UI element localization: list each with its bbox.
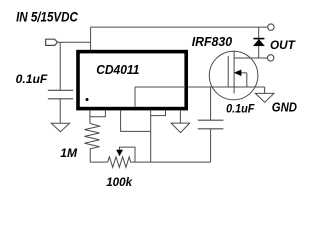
terminal OUT+: [268, 24, 274, 30]
pin wire (pins 5-6 tie): [151, 110, 166, 116]
wire diode branch vertical: [258, 27, 260, 58]
svg-text:0.1uF: 0.1uF: [226, 101, 255, 115]
ground (source): [255, 93, 274, 102]
svg-text:GND: GND: [272, 100, 297, 115]
ground (IC pin 7): [171, 123, 190, 133]
svg-text:100k: 100k: [106, 175, 133, 189]
wire bottom rail: [90, 161, 107, 163]
capacitor C2 0.1uF (right): [210, 87, 212, 120]
transistor Q1 channel line: [233, 51, 235, 94]
potentiometer R2 100k: [108, 157, 131, 167]
wire VDD vertical: [90, 27, 92, 50]
transistor Q1 gate plate: [227, 56, 229, 87]
pin wire (pin 7 to ground): [179, 110, 181, 123]
ground (input cap): [51, 123, 69, 131]
capacitor C1 0.1uF (left): [59, 42, 61, 90]
pin wire (pin 3 to bottom rail): [121, 110, 151, 131]
svg-text:IRF830: IRF830: [192, 34, 233, 49]
svg-text:0.1uF: 0.1uF: [16, 72, 48, 86]
connector J1 (input pentagon): [46, 39, 58, 45]
pin wire (pins 1-2 tie): [89, 110, 91, 123]
wire source to ground: [264, 87, 266, 93]
svg-text:CD4011: CD4011: [96, 62, 139, 77]
wire top rail: [91, 26, 268, 28]
pin 1 marker dot: [86, 98, 89, 101]
wire input horizontal: [58, 41, 91, 43]
svg-text:OUT: OUT: [270, 38, 296, 52]
IC U1 CD4011 box: [78, 52, 186, 109]
resistor R1 1M: [85, 123, 100, 162]
svg-text:1M: 1M: [60, 148, 77, 160]
wire drain: [234, 57, 267, 59]
wire gate line (CD4011 output to gate): [135, 86, 184, 88]
terminal OUT-: [268, 55, 274, 61]
transistor Q1 IRF830 body circle: [209, 51, 258, 100]
transistor Q1 body arrow: [234, 72, 247, 74]
wire inner-rect vertical (CD4011 output): [134, 87, 136, 107]
diode D1: [253, 38, 264, 40]
potentiometer wiper arrow: [117, 150, 123, 156]
svg-text:IN 5/15VDC: IN 5/15VDC: [16, 9, 78, 24]
